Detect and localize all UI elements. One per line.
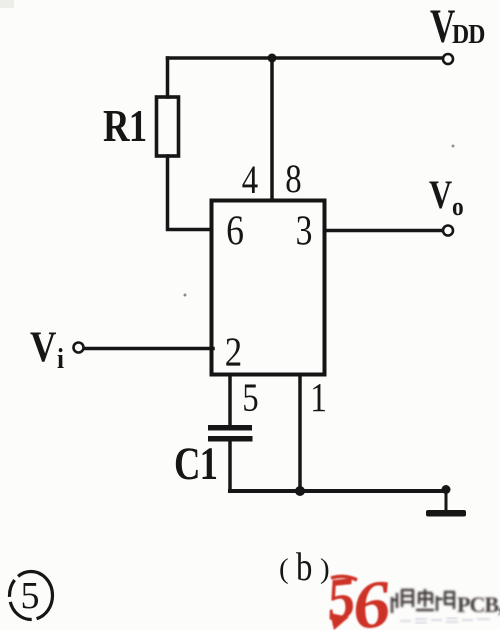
- svg-text:o: o: [452, 193, 464, 221]
- svg-text:1: 1: [310, 376, 327, 421]
- svg-text:(: (: [279, 553, 289, 585]
- svg-text:b: b: [296, 544, 312, 589]
- svg-text:C1: C1: [174, 438, 217, 490]
- svg-text:DD: DD: [452, 19, 485, 50]
- svg-text:2: 2: [225, 330, 242, 375]
- svg-text:PCB,: PCB,: [457, 592, 500, 617]
- svg-text:5: 5: [21, 575, 40, 617]
- svg-text:V: V: [429, 173, 452, 217]
- svg-text:8: 8: [285, 156, 301, 201]
- svg-text:4: 4: [242, 157, 258, 202]
- svg-text:6: 6: [226, 208, 244, 254]
- svg-text:3: 3: [296, 208, 313, 254]
- svg-text:5: 5: [242, 375, 258, 420]
- svg-text:R1: R1: [103, 101, 146, 152]
- svg-text:V: V: [30, 322, 57, 370]
- svg-text:i: i: [57, 343, 64, 375]
